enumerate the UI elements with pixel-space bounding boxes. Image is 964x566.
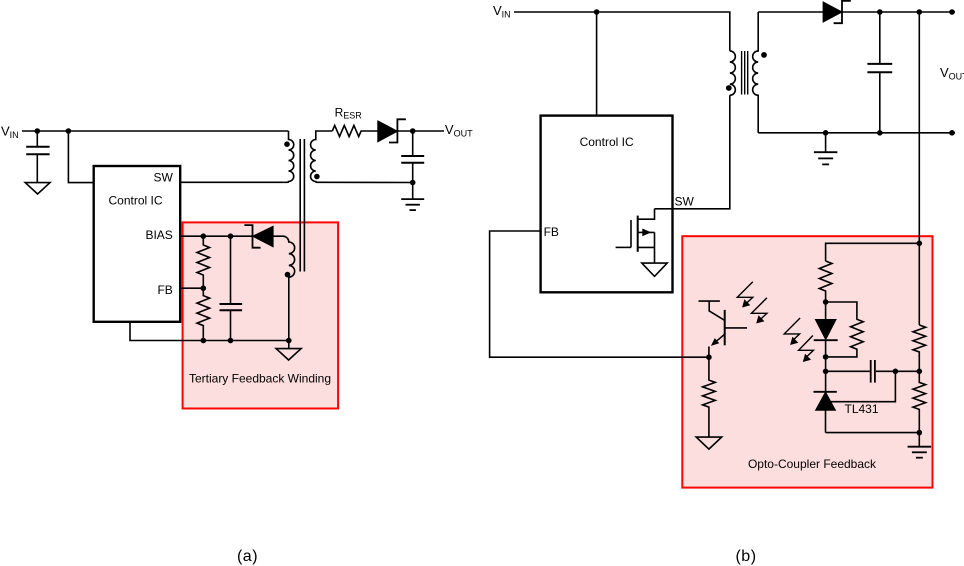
capacitor input C (a) xyxy=(26,131,49,183)
transformer T1 primary winding (a) xyxy=(283,131,293,182)
transformer T2 core (b) xyxy=(742,51,748,95)
wire TL431 ref to comp node (b) xyxy=(831,371,896,401)
transformer T1 tertiary winding (a) xyxy=(273,236,295,340)
svg-text:SW: SW xyxy=(153,171,173,185)
wire VOUT (a) xyxy=(397,130,444,132)
IC U2 Control IC box (b) xyxy=(541,116,673,293)
node junction BIAS-C (a) xyxy=(228,233,234,239)
node junction VIN-IC (b) xyxy=(594,9,600,15)
svg-text:FB: FB xyxy=(157,283,172,297)
svg-text:SW: SW xyxy=(675,195,695,209)
ground arrow tertiary (a) xyxy=(276,341,301,361)
wire VIN branch down to IC (a) xyxy=(68,131,93,183)
capacitor comp C (b) xyxy=(826,360,920,383)
wire secondary top to diode (b) xyxy=(758,11,823,13)
wire output return rail (b) xyxy=(758,132,955,134)
node junction comp-ref (b) xyxy=(893,369,899,375)
node junction FB (a) xyxy=(201,285,207,291)
node junction LED top (b) xyxy=(823,299,829,305)
wire VOUT top rail (b) xyxy=(842,11,955,13)
diode D1 schottky (a) xyxy=(378,119,406,142)
wire BIAS rail (a) xyxy=(180,235,252,237)
node VIN label (a) xyxy=(1,124,19,141)
node junction VOUT (a) xyxy=(410,128,416,134)
svg-text:FB: FB xyxy=(544,225,559,239)
node junction comp (b) xyxy=(823,369,829,375)
transistor Q2 opto phototransistor (b) xyxy=(699,301,748,357)
transformer T1 secondary winding (a) xyxy=(311,131,413,183)
highlight box: Opto-Coupler Feedback region xyxy=(682,236,932,487)
svg-text:Opto-Coupler Feedback: Opto-Coupler Feedback xyxy=(748,457,877,471)
diode D2 bias schottky (a) xyxy=(244,225,273,248)
light arrow opto 2 (b) xyxy=(751,298,767,320)
resistor R divider upper (b) xyxy=(913,325,926,371)
ground earth output (b) xyxy=(814,133,838,165)
U3 TL431 shunt regulator (b) xyxy=(814,371,896,432)
highlight box: Tertiary Feedback Winding region xyxy=(183,222,339,408)
capacitor FB C (a) xyxy=(220,236,243,340)
svg-text:Control IC: Control IC xyxy=(580,135,634,149)
svg-text:(a): (a) xyxy=(237,548,258,565)
light arrow LED 1 (b) xyxy=(784,318,800,340)
node junction return-gnd (b) xyxy=(823,130,829,136)
node junction return-cap (b) xyxy=(877,130,883,136)
wire FB pin (a) xyxy=(180,287,203,289)
node junction rail-R (a) xyxy=(201,338,207,344)
svg-text:(b): (b) xyxy=(735,548,756,565)
ground earth divider (b) xyxy=(908,447,932,458)
polarity dot primary (b) xyxy=(726,85,732,91)
node junction cap top (b) xyxy=(877,9,883,15)
resistor R opto emitter (b) xyxy=(703,357,716,437)
ground arrow opto (b) xyxy=(696,437,722,449)
node junction LED bottom (b) xyxy=(823,354,829,360)
capacitor output C (a) xyxy=(401,131,424,183)
light arrow LED 2 (b) xyxy=(799,336,814,357)
node junction FB-opto (b) xyxy=(706,354,712,360)
node junction rail-winding (a) xyxy=(286,338,292,344)
node junction rail-C (a) xyxy=(228,338,234,344)
svg-text:TL431: TL431 xyxy=(845,402,879,416)
wire VIN top rail (b) xyxy=(514,12,730,51)
svg-text:BIAS: BIAS xyxy=(145,228,172,242)
node junction rail-top of pink (b) xyxy=(917,241,923,247)
ground arrow input (a) xyxy=(25,183,50,194)
wire IC bottom to feedback ground rail (a) xyxy=(130,322,289,341)
wire VIN top rail (a) xyxy=(22,130,289,132)
light arrow opto 1 (b) xyxy=(737,282,753,304)
wire FB loop (b) xyxy=(490,231,709,357)
node terminal VOUT- (b) xyxy=(949,130,955,136)
node junction output return (a) xyxy=(410,180,416,186)
node junction VIN-branch (a) xyxy=(66,128,72,134)
polarity dot secondary (b) xyxy=(761,52,767,58)
transistor Q1 MOSFET (b) xyxy=(616,209,655,263)
ground earth output (a) xyxy=(401,183,424,211)
ground arrow MOSFET source (b) xyxy=(642,263,667,276)
node junction divider-gnd (b) xyxy=(917,430,923,436)
wire SW to transformer primary bottom (a) xyxy=(180,181,283,183)
IC U1 Control IC box (a) xyxy=(94,166,181,322)
node terminal VOUT+ (b) xyxy=(949,9,955,15)
wire VOUT sense rail (b) xyxy=(918,12,920,325)
polarity dot primary (a) xyxy=(284,141,290,147)
LED D4 opto emitter diode (b) xyxy=(814,302,838,357)
resistor R divider lower (b) xyxy=(913,371,926,446)
resistor R parallel LED (b) xyxy=(826,302,864,357)
diode D3 schottky output (b) xyxy=(823,1,851,23)
node junction BIAS-R (a) xyxy=(201,233,207,239)
polarity dot secondary (a) xyxy=(314,174,320,180)
node junction rail top (b) xyxy=(917,9,923,15)
resistor R lower divider (a) xyxy=(197,288,210,340)
resistor RESR (a) xyxy=(332,106,378,137)
transformer T2 primary winding (b) xyxy=(726,51,735,95)
svg-text:Tertiary Feedback Winding: Tertiary Feedback Winding xyxy=(189,372,331,386)
resistor R LED series (b) xyxy=(819,261,832,302)
transformer T1 core (a) xyxy=(300,139,304,272)
resistor R upper divider (a) xyxy=(197,236,210,288)
polarity dot tertiary (a) xyxy=(285,272,291,278)
capacitor output C (b) xyxy=(867,12,892,133)
node junction rail-mid (b) xyxy=(917,369,923,375)
wire TL431 anode to gnd rail (b) xyxy=(826,432,920,434)
svg-text:Control IC: Control IC xyxy=(109,194,163,208)
wire VIN drop to IC top (b) xyxy=(596,12,598,116)
transformer T2 secondary winding (b) xyxy=(753,12,767,133)
wire top feed to LED branch (b) xyxy=(826,243,920,261)
wire LED bottom to TL431 (b) xyxy=(825,357,827,392)
wire SW to transformer primary (b) xyxy=(655,95,730,209)
node junction VIN-cap (a) xyxy=(35,128,41,134)
